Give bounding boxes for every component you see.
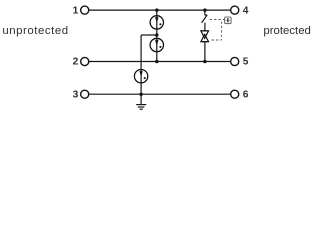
svg-text:2: 2	[73, 57, 79, 68]
svg-text:protected: protected	[263, 25, 311, 37]
svg-text:unprotected: unprotected	[2, 25, 68, 37]
svg-text:6: 6	[243, 90, 249, 101]
svg-text:1: 1	[73, 6, 79, 17]
svg-text:4: 4	[243, 6, 249, 17]
svg-text:3: 3	[73, 90, 79, 101]
svg-text:5: 5	[243, 57, 249, 68]
